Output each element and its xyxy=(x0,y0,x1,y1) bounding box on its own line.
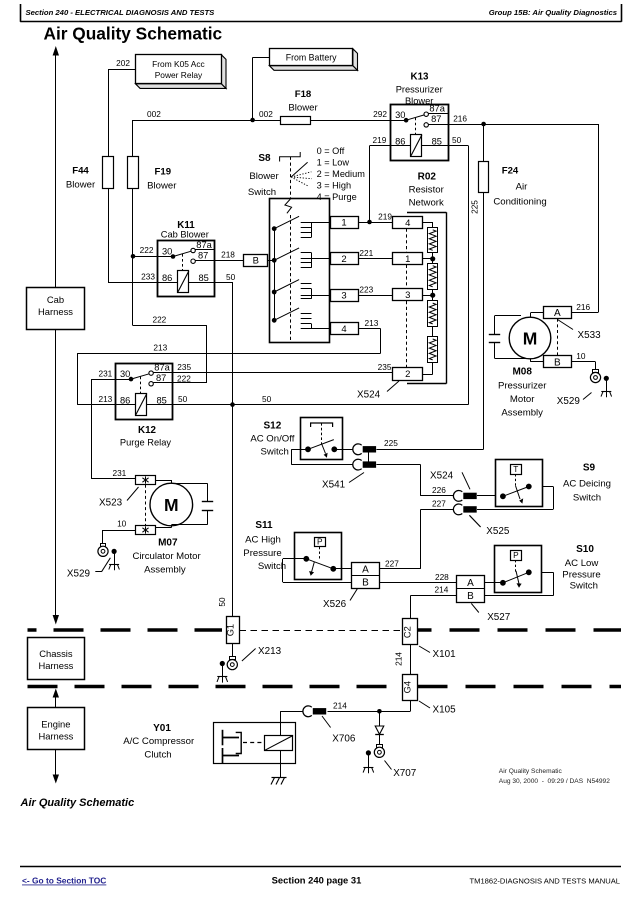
svg-text:X533: X533 xyxy=(578,330,602,341)
svg-text:213: 213 xyxy=(365,318,379,328)
svg-text:Resistor: Resistor xyxy=(409,185,445,196)
svg-text:225: 225 xyxy=(469,200,479,214)
svg-text:226: 226 xyxy=(432,485,446,495)
svg-text:50: 50 xyxy=(178,394,188,404)
svg-text:222: 222 xyxy=(140,245,154,255)
svg-text:86: 86 xyxy=(120,395,130,405)
svg-text:Air Quality Schematic: Air Quality Schematic xyxy=(20,797,135,809)
svg-text:A: A xyxy=(554,308,561,319)
svg-text:10: 10 xyxy=(576,351,586,361)
svg-text:Pressurizer: Pressurizer xyxy=(396,85,443,95)
svg-text:X706: X706 xyxy=(332,734,356,745)
svg-text:1 = Low: 1 = Low xyxy=(317,158,350,168)
svg-text:214: 214 xyxy=(333,700,347,710)
svg-text:Chassis: Chassis xyxy=(39,648,73,659)
svg-text:30: 30 xyxy=(162,246,172,256)
svg-text:Blower: Blower xyxy=(66,180,96,191)
svg-text:<- Go to Section TOC: <- Go to Section TOC xyxy=(22,876,106,886)
svg-text:Clutch: Clutch xyxy=(144,750,171,761)
svg-text:X525: X525 xyxy=(486,526,510,537)
svg-text:Harness: Harness xyxy=(38,660,73,671)
svg-text:A: A xyxy=(362,565,369,576)
svg-text:M: M xyxy=(164,495,179,515)
svg-text:87: 87 xyxy=(198,251,208,261)
svg-text:2 = Medium: 2 = Medium xyxy=(317,169,366,179)
svg-text:Assembly: Assembly xyxy=(144,564,186,575)
svg-text:C2: C2 xyxy=(403,626,413,638)
svg-text:50: 50 xyxy=(452,135,462,145)
svg-text:X105: X105 xyxy=(433,705,457,716)
svg-text:Harness: Harness xyxy=(38,306,73,317)
svg-text:X541: X541 xyxy=(322,479,346,490)
svg-text:Switch: Switch xyxy=(573,493,601,504)
svg-text:233: 233 xyxy=(141,272,155,282)
svg-text:M07: M07 xyxy=(158,537,178,548)
svg-text:235: 235 xyxy=(177,362,191,372)
svg-text:Circulator Motor: Circulator Motor xyxy=(132,551,201,562)
svg-text:X101: X101 xyxy=(433,649,457,660)
svg-text:50: 50 xyxy=(226,272,236,282)
svg-text:222: 222 xyxy=(177,374,191,384)
svg-text:X213: X213 xyxy=(258,646,282,657)
svg-text:87a: 87a xyxy=(154,362,170,372)
svg-text:87: 87 xyxy=(156,373,166,383)
svg-text:Conditioning: Conditioning xyxy=(493,197,546,208)
svg-text:S8: S8 xyxy=(258,153,271,164)
svg-text:216: 216 xyxy=(576,302,590,312)
svg-text:Switch: Switch xyxy=(248,187,276,198)
svg-text:Power Relay: Power Relay xyxy=(155,70,203,80)
svg-text:TM1862-DIAGNOSIS AND TESTS MAN: TM1862-DIAGNOSIS AND TESTS MANUAL xyxy=(469,876,620,885)
svg-text:Cab Blower: Cab Blower xyxy=(161,229,209,239)
svg-text:2: 2 xyxy=(405,369,410,380)
svg-text:87a: 87a xyxy=(196,240,212,250)
svg-text:0 = Off: 0 = Off xyxy=(317,146,345,156)
svg-text:S12: S12 xyxy=(264,420,282,431)
svg-text:227: 227 xyxy=(432,499,446,509)
svg-text:X523: X523 xyxy=(99,498,123,509)
svg-text:Section 240 - ELECTRICAL DIAGN: Section 240 - ELECTRICAL DIAGNOSIS AND T… xyxy=(26,8,216,17)
svg-text:219: 219 xyxy=(373,135,387,145)
svg-text:B: B xyxy=(467,591,474,602)
svg-text:Y01: Y01 xyxy=(153,723,171,734)
svg-text:X524: X524 xyxy=(430,470,454,481)
svg-text:Engine: Engine xyxy=(41,719,70,730)
svg-text:221: 221 xyxy=(359,248,373,258)
svg-text:A: A xyxy=(467,578,474,589)
svg-text:Air: Air xyxy=(516,182,529,193)
svg-text:85: 85 xyxy=(157,395,167,405)
svg-text:Motor: Motor xyxy=(510,394,535,405)
svg-text:223: 223 xyxy=(359,285,373,295)
svg-text:4: 4 xyxy=(405,218,410,229)
svg-text:B: B xyxy=(362,578,369,589)
svg-text:213: 213 xyxy=(98,394,112,404)
svg-text:AC Low: AC Low xyxy=(565,558,599,569)
svg-text:T: T xyxy=(513,464,518,474)
svg-text:219: 219 xyxy=(378,211,392,221)
svg-text:S9: S9 xyxy=(583,463,596,474)
svg-text:X524: X524 xyxy=(357,390,381,401)
svg-text:A/C Compressor: A/C Compressor xyxy=(123,736,195,747)
svg-text:3 = High: 3 = High xyxy=(317,181,351,191)
svg-text:X527: X527 xyxy=(487,612,510,623)
svg-text:Switch: Switch xyxy=(570,580,598,591)
svg-text:X529: X529 xyxy=(67,569,91,580)
svg-text:AC High: AC High xyxy=(245,534,281,545)
svg-text:1: 1 xyxy=(341,217,346,228)
svg-text:Aug 30, 2000 - 09:29 / DAS: Aug 30, 2000 - 09:29 / DAS N54992 xyxy=(499,778,610,785)
svg-text:F18: F18 xyxy=(295,89,312,100)
svg-text:Pressurizer: Pressurizer xyxy=(498,381,547,392)
svg-text:4: 4 xyxy=(341,324,346,335)
svg-text:Air Quality Schematic: Air Quality Schematic xyxy=(499,768,563,775)
svg-text:30: 30 xyxy=(120,369,130,379)
svg-text:Purge Relay: Purge Relay xyxy=(120,438,172,448)
svg-text:Section 240 page 31: Section 240 page 31 xyxy=(272,875,362,886)
svg-text:Blower: Blower xyxy=(249,171,279,182)
svg-text:Harness: Harness xyxy=(38,730,73,741)
svg-text:228: 228 xyxy=(435,572,449,582)
svg-text:M08: M08 xyxy=(512,367,532,378)
svg-text:2: 2 xyxy=(341,254,346,265)
svg-text:Blower: Blower xyxy=(288,103,318,114)
svg-text:222: 222 xyxy=(152,315,166,325)
svg-text:30: 30 xyxy=(395,110,405,120)
svg-text:From K05 Acc: From K05 Acc xyxy=(152,59,205,69)
svg-text:002: 002 xyxy=(147,109,161,119)
svg-text:Assembly: Assembly xyxy=(501,408,543,419)
svg-text:218: 218 xyxy=(221,250,235,260)
svg-text:F44: F44 xyxy=(72,166,89,177)
svg-text:235: 235 xyxy=(378,362,392,372)
svg-text:S11: S11 xyxy=(255,520,273,531)
svg-text:231: 231 xyxy=(98,368,112,378)
svg-text:P: P xyxy=(513,550,519,560)
svg-text:4 = Purge: 4 = Purge xyxy=(317,192,357,202)
svg-text:B: B xyxy=(253,256,259,267)
svg-text:X707: X707 xyxy=(393,768,416,779)
svg-text:85: 85 xyxy=(199,273,209,283)
svg-text:3: 3 xyxy=(405,290,410,301)
svg-text:Group 15B: Air Quality Diagnos: Group 15B: Air Quality Diagnostics xyxy=(489,8,618,17)
svg-text:216: 216 xyxy=(453,113,467,123)
svg-text:F19: F19 xyxy=(155,167,172,178)
svg-text:292: 292 xyxy=(373,109,387,119)
svg-text:X526: X526 xyxy=(323,599,347,610)
svg-text:K12: K12 xyxy=(138,425,157,436)
svg-text:Switch: Switch xyxy=(261,447,289,458)
svg-text:Pressure: Pressure xyxy=(562,569,600,580)
svg-text:G4: G4 xyxy=(403,681,413,693)
svg-text:213: 213 xyxy=(153,342,167,352)
svg-text:002: 002 xyxy=(259,109,273,119)
svg-text:214: 214 xyxy=(435,585,449,595)
svg-text:214: 214 xyxy=(394,652,404,666)
svg-text:225: 225 xyxy=(384,438,398,448)
svg-text:86: 86 xyxy=(162,273,172,283)
svg-text:3: 3 xyxy=(341,291,346,302)
svg-text:Network: Network xyxy=(409,198,444,209)
svg-text:202: 202 xyxy=(116,58,130,68)
svg-text:Blower: Blower xyxy=(147,181,177,192)
svg-text:G1: G1 xyxy=(225,624,235,636)
svg-text:227: 227 xyxy=(385,559,399,569)
svg-text:From Battery: From Battery xyxy=(286,52,337,62)
svg-text:X529: X529 xyxy=(557,396,581,407)
svg-text:1: 1 xyxy=(405,254,410,265)
svg-text:Cab: Cab xyxy=(47,294,64,305)
svg-text:AC On/Off: AC On/Off xyxy=(250,434,294,445)
svg-text:Switch: Switch xyxy=(258,561,286,572)
svg-text:Air Quality Schematic: Air Quality Schematic xyxy=(44,24,223,44)
svg-text:50: 50 xyxy=(217,597,227,607)
svg-text:B: B xyxy=(554,357,561,368)
svg-text:10: 10 xyxy=(117,519,127,529)
svg-text:S10: S10 xyxy=(576,544,594,555)
svg-text:K13: K13 xyxy=(411,72,430,83)
svg-text:F24: F24 xyxy=(502,166,519,177)
svg-text:P: P xyxy=(317,537,323,547)
svg-text:231: 231 xyxy=(112,468,126,478)
svg-text:87: 87 xyxy=(431,114,441,124)
svg-text:AC Deicing: AC Deicing xyxy=(563,479,611,490)
svg-text:Pressure: Pressure xyxy=(243,548,281,559)
svg-text:Blower: Blower xyxy=(405,96,433,106)
svg-text:R02: R02 xyxy=(418,172,437,183)
svg-text:M: M xyxy=(523,329,538,349)
svg-text:50: 50 xyxy=(262,394,272,404)
